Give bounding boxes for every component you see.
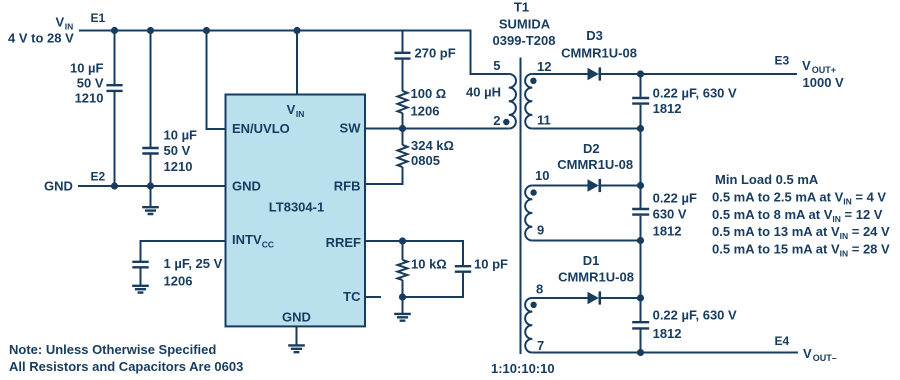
junction dot top rail C2 — [147, 27, 154, 34]
svg-text:V: V — [802, 58, 811, 73]
capacitor bus A 0.22uF plates — [632, 98, 649, 104]
svg-text:50 V: 50 V — [77, 76, 104, 91]
svg-text:0.5 mA to 13 mA at VIN = 24 V: 0.5 mA to 13 mA at VIN = 24 V — [712, 224, 890, 241]
svg-text:12: 12 — [537, 59, 551, 74]
svg-text:100 Ω: 100 Ω — [411, 86, 447, 101]
svg-text:7: 7 — [537, 338, 544, 353]
svg-text:INTV: INTV — [232, 232, 262, 247]
wire pin12 to D3 — [532, 73, 587, 75]
svg-text:270 pF: 270 pF — [415, 45, 456, 60]
wire pin7 to bus and E4 — [532, 352, 798, 354]
svg-text:E1: E1 — [91, 11, 106, 25]
svg-text:630 V: 630 V — [653, 206, 687, 221]
svg-text:SW: SW — [340, 121, 362, 136]
svg-text:SUMIDA: SUMIDA — [499, 17, 551, 32]
junction dot top rail EN — [203, 27, 210, 34]
diode D1 — [588, 292, 599, 304]
wire RREF net — [365, 241, 463, 266]
svg-text:1210: 1210 — [164, 159, 193, 174]
svg-text:0.22 µF, 630 V: 0.22 µF, 630 V — [653, 307, 737, 322]
svg-text:40 µH: 40 µH — [466, 84, 501, 99]
svg-text:E3: E3 — [775, 54, 790, 68]
capacitor 10pF lower wire + TC net — [403, 273, 464, 297]
secondary 3 phase dot — [530, 302, 536, 308]
svg-text:V: V — [803, 346, 812, 361]
wire D3 cathode to bus — [601, 73, 641, 75]
resistor 324k wires — [365, 129, 403, 185]
resistor 324k zigzag — [398, 145, 408, 167]
resistor 10k zigzag — [398, 260, 408, 280]
svg-text:IN: IN — [296, 109, 305, 119]
svg-text:TC: TC — [343, 289, 361, 304]
wire GND rail — [78, 185, 226, 187]
svg-text:0.22 µF, 630 V: 0.22 µF, 630 V — [653, 85, 737, 100]
wire VIN pin — [296, 31, 298, 95]
secondary 2 phase dot — [530, 189, 536, 195]
svg-text:GND: GND — [282, 310, 311, 325]
svg-text:8: 8 — [536, 282, 543, 297]
wire SW net — [365, 128, 509, 130]
junction dot bus 11 — [637, 125, 644, 132]
svg-text:GND: GND — [232, 179, 261, 194]
svg-text:1812: 1812 — [653, 101, 682, 116]
svg-text:CC: CC — [262, 239, 274, 249]
output bus vertical — [640, 74, 642, 353]
svg-text:D2: D2 — [583, 141, 600, 156]
capacitor C2 plates — [142, 148, 158, 154]
wire INTVCC net — [141, 241, 226, 261]
capacitor bus B 0.22uF plates — [632, 209, 649, 215]
diode D3 — [588, 68, 599, 80]
junction dot top rail VIN pin — [293, 27, 300, 34]
svg-text:1206: 1206 — [164, 273, 193, 288]
transformer primary winding — [509, 74, 516, 129]
capacitor bus C 0.22uF plates — [632, 322, 649, 328]
svg-text:LT8304-1: LT8304-1 — [269, 200, 324, 215]
wire pin9 to bus — [532, 240, 640, 242]
svg-text:50 V: 50 V — [164, 143, 191, 158]
wire top VIN rail — [79, 31, 509, 75]
svg-text:11: 11 — [537, 113, 551, 128]
svg-text:V: V — [56, 14, 65, 29]
svg-text:RREF: RREF — [326, 235, 361, 250]
svg-text:E2: E2 — [91, 170, 106, 184]
svg-text:OUT–: OUT– — [813, 353, 837, 363]
svg-text:10 µF: 10 µF — [164, 128, 198, 143]
wire pin8 to D1 — [532, 297, 587, 299]
wire pin10 to D2 — [532, 185, 587, 187]
svg-text:0.5 mA to 2.5 mA at VIN = 4 V: 0.5 mA to 2.5 mA at VIN = 4 V — [712, 189, 886, 206]
junction dot bus 9 — [637, 237, 644, 244]
svg-text:10: 10 — [535, 168, 549, 183]
ground symbol below C2 — [142, 186, 159, 214]
capacitor 270pF plates — [395, 53, 411, 59]
svg-text:RFB: RFB — [334, 179, 361, 194]
capacitor 270pF wires — [402, 31, 404, 92]
junction dot gnd rail C2 — [147, 182, 154, 189]
resistor 10k wires — [402, 241, 404, 297]
capacitor C3 lower wire — [140, 268, 142, 285]
ground symbol IC — [288, 345, 305, 352]
svg-text:1 µF, 25 V: 1 µF, 25 V — [164, 256, 223, 271]
junction dot top rail C1 — [111, 27, 118, 34]
svg-text:GND: GND — [44, 179, 73, 194]
svg-text:10 kΩ: 10 kΩ — [411, 256, 447, 271]
svg-text:E4: E4 — [775, 334, 790, 348]
junction dot gnd rail C1 — [111, 182, 118, 189]
wire E3 output — [641, 73, 798, 75]
junction dot bus E3 — [637, 70, 644, 77]
resistor 100 Ohm lower wire — [402, 113, 404, 129]
secondary winding 2 (pins 10/9) — [525, 185, 532, 240]
svg-text:5: 5 — [493, 58, 500, 73]
svg-text:0805: 0805 — [411, 153, 440, 168]
capacitor C3 1uF 25V plates — [132, 262, 148, 268]
svg-text:Min Load 0.5 mA: Min Load 0.5 mA — [715, 172, 819, 187]
wire TC pin stub (unconnected) — [365, 296, 381, 298]
svg-text:1206: 1206 — [411, 103, 440, 118]
svg-text:1812: 1812 — [653, 224, 682, 239]
junction dot RREF — [399, 237, 406, 244]
svg-text:1210: 1210 — [75, 91, 104, 106]
svg-text:Note: Unless Otherwise Specifi: Note: Unless Otherwise Specified — [9, 342, 216, 357]
diode D2 — [588, 179, 599, 191]
wire D2 cathode to bus — [601, 185, 641, 187]
capacitor C1 10uF 50V 1210 wires — [114, 31, 116, 187]
svg-text:OUT+: OUT+ — [812, 65, 836, 75]
transformer core — [520, 58, 522, 355]
wire EN/UVLO branch — [207, 31, 226, 130]
svg-text:1812: 1812 — [653, 326, 682, 341]
junction dot bus 7 — [637, 349, 644, 356]
svg-text:9: 9 — [537, 223, 544, 238]
svg-text:T1: T1 — [514, 0, 529, 15]
svg-text:D3: D3 — [586, 28, 603, 43]
svg-text:4 V to 28 V: 4 V to 28 V — [8, 31, 74, 46]
secondary winding 3 (pins 8/7) — [525, 298, 532, 353]
secondary 1 phase dot — [530, 78, 536, 84]
IC U1 LT8304-1 body — [226, 95, 366, 327]
svg-text:0399-T208: 0399-T208 — [493, 33, 556, 48]
primary phase dot — [503, 119, 509, 125]
ground symbol TC — [402, 297, 404, 314]
capacitor C1 plates — [106, 85, 122, 91]
wire D1 cathode to bus — [601, 297, 641, 299]
secondary winding 1 (pins 12/11) — [525, 74, 532, 129]
svg-text:1:10:10:10: 1:10:10:10 — [491, 361, 555, 376]
junction dot TC — [399, 293, 406, 300]
capacitor 10pF plates — [455, 266, 471, 272]
wire IC bottom GND pin — [296, 327, 298, 345]
resistor 100 Ohm zigzag — [398, 91, 408, 113]
svg-text:CMMR1U-08: CMMR1U-08 — [561, 45, 637, 60]
svg-text:1000 V: 1000 V — [803, 75, 845, 90]
svg-text:All Resistors and Capacitors A: All Resistors and Capacitors Are 0603 — [9, 359, 243, 374]
junction dot bus D2 — [637, 182, 644, 189]
junction dot bus D1 — [637, 294, 644, 301]
capacitor C2 10uF 50V 1210 wires — [150, 31, 152, 187]
svg-text:CMMR1U-08: CMMR1U-08 — [557, 157, 633, 172]
svg-text:EN/UVLO: EN/UVLO — [232, 121, 290, 136]
svg-text:D1: D1 — [583, 253, 600, 268]
junction dot SW — [399, 125, 406, 132]
svg-text:V: V — [287, 102, 296, 117]
svg-text:10 µF: 10 µF — [70, 61, 104, 76]
svg-text:CMMR1U-08: CMMR1U-08 — [558, 270, 634, 285]
svg-text:0.5 mA to 8 mA at VIN = 12 V: 0.5 mA to 8 mA at VIN = 12 V — [712, 207, 883, 224]
wire pin11 to bus — [532, 128, 640, 130]
svg-text:2: 2 — [493, 113, 500, 128]
ground symbol below C3 — [132, 286, 149, 293]
svg-text:324 kΩ: 324 kΩ — [411, 138, 454, 153]
svg-text:0.22 µF: 0.22 µF — [653, 191, 697, 206]
svg-text:0.5 mA to 15 mA at VIN = 28 V: 0.5 mA to 15 mA at VIN = 28 V — [712, 242, 890, 259]
svg-text:10 pF: 10 pF — [474, 256, 508, 271]
